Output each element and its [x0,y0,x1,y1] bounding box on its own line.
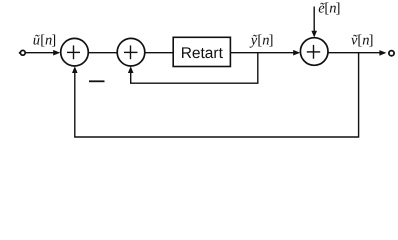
node e[n] label [318,1,340,17]
minus sign [89,80,105,82]
svg-text:]: ] [336,1,341,17]
wire Retart to summer 3 [230,52,294,54]
summing junction 2 [117,38,145,66]
svg-text:Retart: Retart [181,45,224,62]
inner feedback wire: branch after Retart down and left to summer 2 [131,53,258,83]
svg-text:ũ: ũ [33,32,40,48]
svg-text:]: ] [269,32,274,48]
outer feedback wire: branch after summer 3 down and left to summer 1 [75,53,359,137]
wire summer2 to Retart block [145,52,173,54]
svg-text:]: ] [51,32,56,48]
summing junction 1 [61,38,89,66]
summing junction 3 [300,38,328,66]
output terminal [389,51,394,56]
block Retart [173,37,230,66]
node u[n] label [33,32,56,48]
wire input to summer 1 [25,52,54,54]
wire summer1 to summer2 [88,52,117,54]
node v[n] label [351,33,373,49]
wire summer 3 to output [328,52,380,54]
input terminal [19,50,25,55]
node y[n] label [249,32,274,48]
wire e[n] input from top [313,7,315,33]
svg-text:]: ] [369,33,374,49]
